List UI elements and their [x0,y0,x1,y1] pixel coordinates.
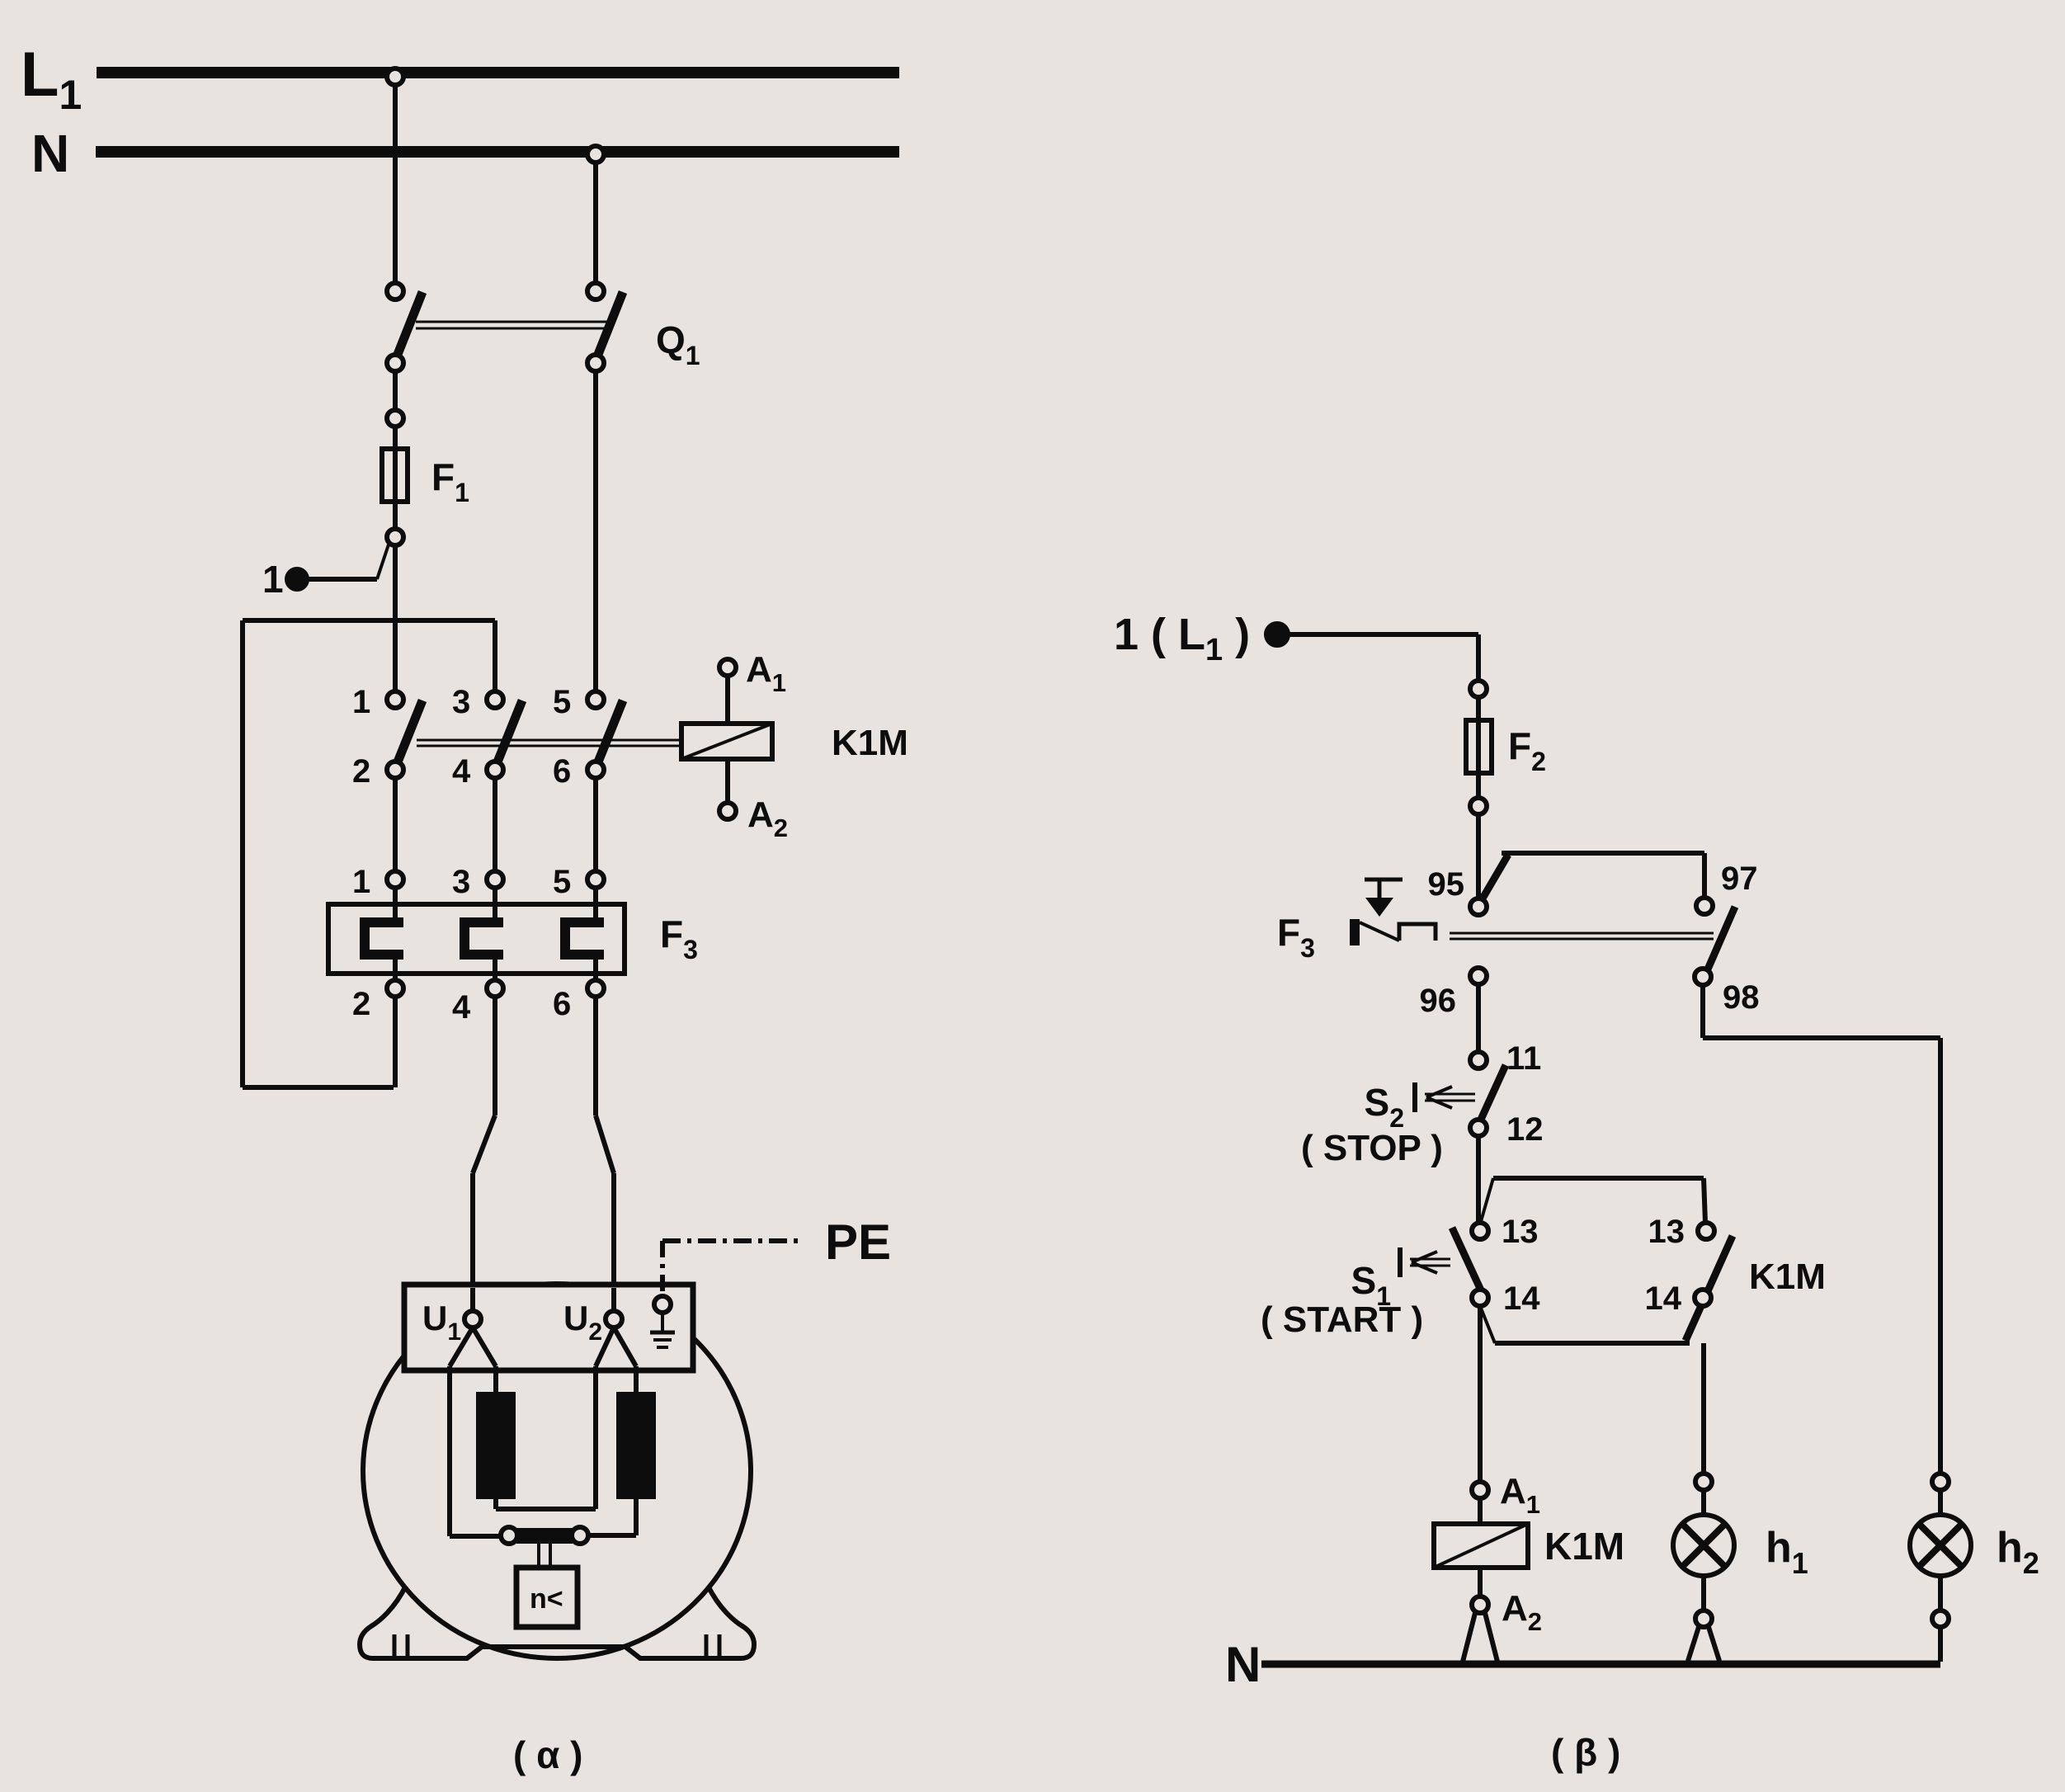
svg-text:K1M: K1M [832,723,908,763]
svg-text:4: 4 [452,989,471,1026]
svg-text:1 ( L1 ): 1 ( L1 ) [1114,610,1250,667]
svg-text:( α ): ( α ) [513,1733,582,1776]
svg-text:5: 5 [553,864,571,900]
svg-text:5: 5 [553,684,571,720]
svg-text:13: 13 [1502,1214,1539,1250]
svg-text:6: 6 [553,753,571,790]
svg-text:6: 6 [553,986,571,1022]
svg-text:n<: n< [530,1583,563,1615]
svg-text:2: 2 [352,753,370,790]
svg-text:2: 2 [352,986,370,1022]
svg-text:11: 11 [1506,1040,1541,1077]
svg-text:1: 1 [262,558,284,601]
svg-text:3: 3 [452,684,470,720]
svg-text:N: N [1225,1637,1261,1692]
svg-text:3: 3 [452,864,470,900]
svg-text:( STOP ): ( STOP ) [1301,1128,1443,1168]
svg-text:( β ): ( β ) [1551,1731,1620,1774]
svg-text:1: 1 [352,684,370,720]
svg-text:97: 97 [1721,861,1758,897]
svg-text:98: 98 [1723,979,1760,1016]
svg-text:4: 4 [452,753,471,790]
svg-text:14: 14 [1503,1280,1540,1317]
svg-text:K1M: K1M [1749,1257,1826,1297]
svg-text:14: 14 [1645,1280,1682,1317]
svg-text:13: 13 [1648,1214,1685,1250]
svg-text:K1M: K1M [1544,1525,1624,1568]
svg-text:( START ): ( START ) [1261,1299,1423,1340]
svg-text:N: N [31,124,69,183]
svg-text:96: 96 [1420,983,1457,1019]
svg-text:PE: PE [825,1214,891,1270]
svg-text:95: 95 [1428,866,1465,903]
svg-text:12: 12 [1506,1111,1544,1148]
svg-text:1: 1 [352,864,370,900]
